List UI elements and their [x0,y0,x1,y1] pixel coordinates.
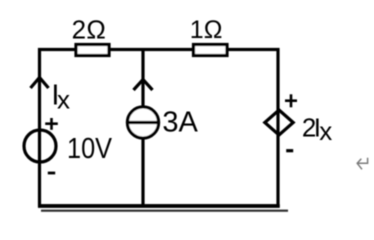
svg-text:x: x [319,116,332,146]
svg-text:2Ω: 2Ω [72,14,107,44]
svg-text:3A: 3A [162,107,198,139]
svg-text:1Ω: 1Ω [190,16,223,44]
svg-text:x: x [57,84,70,114]
svg-text:10V: 10V [67,133,113,165]
